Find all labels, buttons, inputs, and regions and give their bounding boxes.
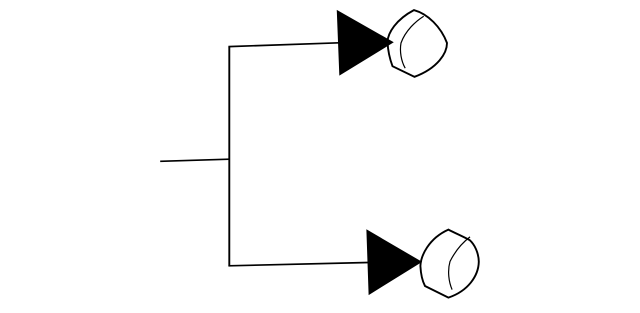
arrow to part 2 (bottom) [367, 230, 421, 294]
wire: top branch [228, 43, 339, 47]
part 1: cap (top) face edge line [400, 16, 423, 68]
wire: vertical stem [228, 47, 230, 266]
wire: bottom branch [228, 263, 368, 266]
wire: left lead line [160, 159, 229, 161]
part 1: cap (top) outline [388, 10, 448, 77]
arrow to part 1 (top) [337, 11, 393, 75]
part 2: cap (bottom) face edge line [449, 237, 470, 290]
part 2: cap (bottom) outline [420, 230, 478, 298]
